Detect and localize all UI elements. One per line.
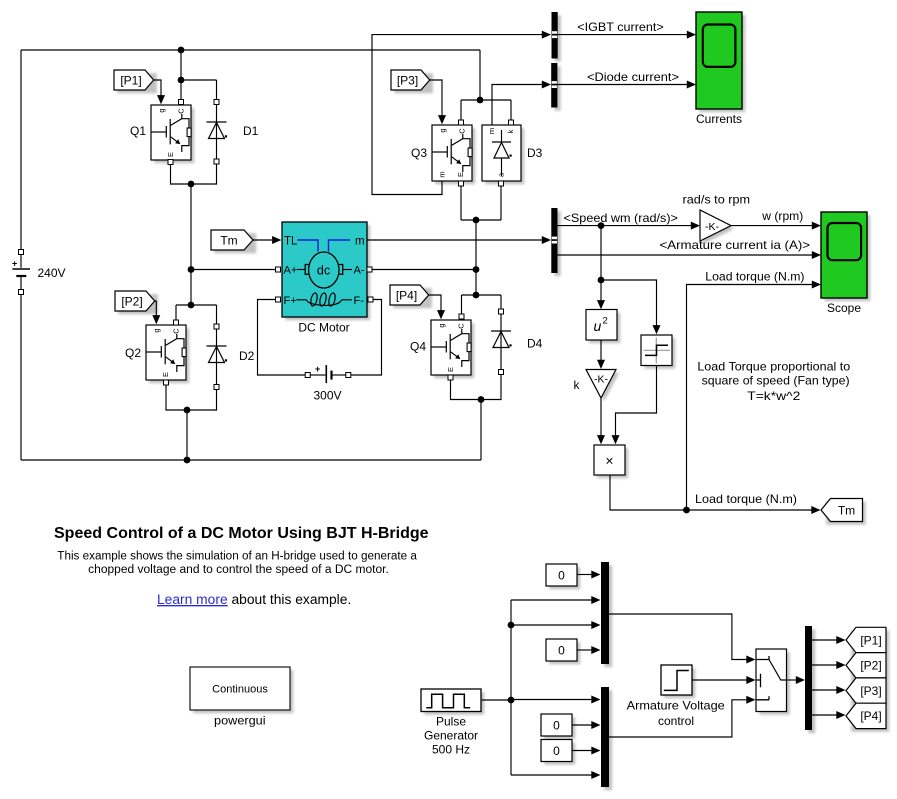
wire step to switch in2 [692,679,747,681]
constant 0 block c1 [546,564,580,589]
wire demux out3 [812,689,837,691]
wire right drop from top rail [479,50,481,100]
svg-text:w (rpm): w (rpm) [761,209,803,223]
wire Q2 emitter to junction [166,385,187,410]
svg-text:×: × [605,453,613,469]
wire right mid vertical [475,220,477,295]
wire D4 anode to junction [481,375,501,400]
wire mux1 to switch in1 [609,614,747,660]
wire gain k to product [600,398,602,437]
svg-text:powergui: powergui [214,714,266,728]
transistor Q1 (IGBT) [130,105,194,163]
svg-text:Q2: Q2 [125,346,141,360]
port motor A- [367,267,372,272]
wire selector to Currents in2 [557,84,687,86]
node Q4/D4 split [473,292,480,299]
svg-text:D2: D2 [239,349,255,363]
svg-text:E: E [161,372,170,377]
mux 2 [601,687,612,790]
from tag [P2] [115,291,158,314]
wire [P2] to Q2 gate [155,301,157,320]
node speed tap [598,222,605,229]
node Q1/D1 split [178,77,185,84]
from tag [P3] [391,70,433,93]
port Q1 collector [179,100,184,105]
svg-text:Learn more about this example.: Learn more about this example. [157,592,351,607]
svg-text:0: 0 [553,719,560,733]
svg-text:Q1: Q1 [130,124,146,138]
wire load torque to scope in3 [687,285,813,511]
wire Q4-D4 collector branch [462,295,502,314]
wire to relay [601,280,657,326]
port motor F+ [276,297,281,302]
label Pulse Generator 500 Hz [424,715,478,757]
scope Scope [821,212,870,315]
goto tag Tm [821,499,866,525]
wire demux out4 [812,714,837,716]
svg-text:Load torque (N.m): Load torque (N.m) [705,270,804,284]
wire mux2 to switch in3 [609,700,747,737]
wire Tm to motor TL input [253,239,272,241]
wire F+ field loop [258,300,306,376]
svg-text:T=k*w^2: T=k*w^2 [747,389,800,403]
svg-text:Tm: Tm [220,233,237,247]
svg-text:g: g [157,108,166,112]
svg-text:E: E [446,367,455,372]
svg-text:[P1]: [P1] [120,73,141,87]
node Q3/D3 split [477,97,484,104]
svg-text:A-: A- [354,265,365,277]
wire into u2 [600,280,602,301]
svg-text:m: m [437,171,446,177]
diode D1 [207,105,259,160]
port D2 cathode [214,324,219,329]
svg-text:F-: F- [354,295,365,307]
port Q1 emitter [168,160,173,165]
wire armature current output [558,254,813,256]
svg-text:300V: 300V [313,389,341,403]
goto tag [P4] [846,703,889,732]
wire product to Tm goto [610,475,812,510]
port Q3 collector [459,120,464,125]
wire demux out2 [812,664,837,666]
svg-text:Speed Control of a DC Motor Us: Speed Control of a DC Motor Using BJT H-… [54,525,429,542]
node Q2/D2 split [188,302,195,309]
svg-text:[P2]: [P2] [860,659,881,673]
svg-text:0: 0 [558,569,565,583]
wire D3 anode down [500,186,502,220]
svg-text:TL: TL [284,236,298,248]
svg-text:2: 2 [603,316,608,327]
svg-text:A+: A+ [284,265,298,277]
svg-text:<Speed wm (rad/s)>: <Speed wm (rad/s)> [564,211,678,225]
wire c2 to mux1 in4 [577,649,592,651]
wire Q4 emitter to junction [451,380,482,400]
svg-text:C: C [457,323,466,329]
constant 0 block c3 [541,714,575,739]
svg-text:rad/s to rpm: rad/s to rpm [683,193,751,207]
scope Currents [696,12,745,126]
node A+ tap [188,266,195,273]
svg-text:D1: D1 [243,124,259,138]
port D2 anode [214,385,219,390]
from tag [P4] [390,285,432,308]
node load torque tap [683,507,690,514]
node Q4/D4 emitter junction [478,396,485,403]
svg-text:Pulse: Pulse [436,715,466,729]
svg-text:[P4]: [P4] [860,709,881,723]
port motor F- [368,297,373,302]
svg-text:Q3: Q3 [411,146,427,160]
bus selector speed/current [551,208,560,276]
svg-text:k: k [574,378,581,392]
gain k [586,370,619,402]
relay block [641,335,675,369]
demux [805,626,815,733]
svg-text:[P3]: [P3] [860,684,881,698]
wire A- to junction [372,269,476,271]
wire top rail [21,49,480,51]
goto tag [P2] [846,653,889,682]
port Q4 emitter [448,375,453,380]
svg-text:Continuous: Continuous [212,684,268,696]
svg-text:Q4: Q4 [410,340,426,354]
diode D4 [491,314,543,370]
svg-text:DC Motor: DC Motor [298,321,349,335]
wire relay to product [616,366,657,437]
svg-text:dc: dc [317,264,330,278]
svg-text:<IGBT current>: <IGBT current> [577,20,663,34]
svg-text:[P3]: [P3] [397,73,418,87]
constant 0 block c4 [541,740,575,765]
dc source V2 300V [305,364,351,383]
wire gain to scope in1 [731,225,812,227]
svg-text:Generator: Generator [424,729,478,743]
svg-text:F+: F+ [284,295,297,307]
svg-text:m: m [487,128,496,134]
svg-text:Currents: Currents [696,112,742,126]
goto tag [P3] [846,678,889,707]
port Q2 collector [174,320,179,325]
mux 1 [601,562,612,667]
port D3 cathode [509,120,514,125]
transistor Q4 (IGBT) [410,320,474,378]
wire demux out1 [812,639,837,641]
wire left rail lower [20,295,22,461]
wire Q1-D1 collector branch [181,50,217,99]
wire to mux1 in3 [511,624,592,626]
port D4 anode [499,370,504,375]
wire Q3-D3 collector branch [461,100,511,120]
svg-text:Load torque (N.m): Load torque (N.m) [695,492,797,506]
diode D2 [207,329,255,387]
svg-text:square of speed (Fan type): square of speed (Fan type) [702,373,850,387]
goto tag [P1] [846,627,889,656]
wire Q4 junction to bottom rail [480,400,482,461]
wire F- field loop [351,300,382,376]
wire Q1 emitter to junction [171,165,192,185]
svg-text:C: C [172,328,181,334]
transistor Q3 (IGBT with measurement) [411,125,475,184]
svg-text:g: g [438,128,447,132]
wire pulse generator out [482,699,511,701]
svg-text:500 Hz: 500 Hz [432,743,470,757]
powergui block [190,667,293,713]
svg-text:240V: 240V [38,266,66,280]
annotation learn more link [157,592,351,607]
svg-text:0: 0 [558,644,565,658]
svg-text:0: 0 [553,744,560,758]
svg-text:control: control [658,714,694,728]
node pulse tap a [508,622,515,629]
math function u2 [586,310,620,344]
diode D3 (block with measurement) [482,125,543,184]
wire Q2-D2 collector branch [176,305,217,324]
label Armature Voltage control [627,699,725,728]
wire switch to demux [787,679,797,681]
svg-text:u: u [594,318,602,334]
wire pulse distribution vertical [510,600,512,775]
transistor Q2 (IGBT) [125,325,189,383]
annotation fan type note [697,359,850,403]
gain rad/s to rpm [700,210,734,244]
wire Q3 m to IGBT-current selector [372,35,542,195]
wire c1 to mux1 in1 [577,574,592,576]
product block [594,445,628,478]
port motor A+ [276,267,281,272]
svg-text:<Diode current>: <Diode current> [587,70,679,84]
bus selector Diode current [551,63,560,111]
wire c4 to mux2 in3 [572,750,592,752]
node Q1/D1 emitter junction [188,181,195,188]
wire u2 to gain k [600,340,602,361]
port D1 cathode [214,100,219,105]
pulse generator block [421,689,484,715]
wire to mux1 in2 [511,599,592,601]
svg-text:[P4]: [P4] [396,288,417,302]
svg-text:Scope: Scope [827,301,861,315]
wire D1 cathode to junction [191,164,217,184]
svg-text:E: E [456,172,465,177]
wire to mux2 in4 [511,774,592,776]
wire c3 to mux2 in2 [572,724,592,726]
svg-text:Load Torque proportional to: Load Torque proportional to [697,359,850,373]
svg-text:m: m [355,236,365,248]
port Q4 collector [459,314,464,319]
node A- tap [473,266,480,273]
wire left rail upper [20,50,22,250]
svg-text:D3: D3 [527,146,543,160]
svg-text:+: + [315,364,320,374]
wire Q3 emitter down [460,186,462,220]
annotation description [57,550,417,576]
wire [P3] to Q3 gate [430,80,442,120]
wire speed tap down [600,226,602,280]
wire D3 m to Diode-current selector [492,85,542,126]
dc motor block [282,222,370,320]
wire speed wm output [558,225,692,227]
wire mid vertical to A+ [190,184,192,305]
wire D2 anode to junction [187,390,217,411]
wire motor m to speed selector [367,239,542,241]
dc source V1 240V [12,250,30,295]
svg-text:chopped voltage and to control: chopped voltage and to control the speed… [88,564,389,576]
port D4 cathode [499,309,504,314]
from tag Tm (load torque) [211,230,256,253]
node Q3/D3 emitter junction [473,217,480,224]
wire [P4] to Q4 gate [429,295,441,315]
port Q2 emitter [164,380,169,385]
svg-text:This example shows the simulat: This example shows the simulation of an … [57,550,417,562]
wire bottom rail [21,459,481,461]
node pulse tap b [508,697,515,704]
svg-text:D4: D4 [527,337,543,351]
svg-text:C: C [177,108,186,114]
svg-text:C: C [458,128,467,134]
svg-text:Armature Voltage: Armature Voltage [627,699,725,713]
node Q2/D2 emitter junction [184,407,191,414]
svg-text:g: g [152,328,161,332]
wire selector to Currents in1 [558,34,687,36]
svg-text:-K-: -K- [594,374,609,386]
bus selector IGBT current [552,12,561,62]
port D1 anode [214,159,219,164]
svg-text:[P1]: [P1] [860,633,881,647]
node bottom rail tap [184,457,191,464]
wire Q3/D3 junction bar [461,219,501,221]
wire to A+ port [191,269,276,271]
switch block [756,649,790,715]
svg-text:g: g [437,323,446,327]
step source block [661,665,695,698]
svg-text:-K-: -K- [705,221,720,233]
port Q3 emitter [459,181,464,186]
svg-text:E: E [166,152,175,157]
from tag [P1] [114,70,157,93]
constant 0 block c2 [546,639,580,664]
node fan branch [598,277,605,284]
wire to mux2 in1 [511,699,592,701]
node top-rail / Q1 branch [178,47,185,54]
svg-text:[P2]: [P2] [121,294,142,308]
wire [P1] to Q1 gate [154,80,161,100]
svg-text:<Armature current ia (A)>: <Armature current ia (A)> [660,238,811,252]
svg-text:k: k [506,129,515,133]
port D3 anode [499,181,504,186]
wire Q2 junction down to bottom rail [186,410,188,460]
svg-text:Tm: Tm [838,503,855,517]
svg-text:+: + [12,259,17,269]
